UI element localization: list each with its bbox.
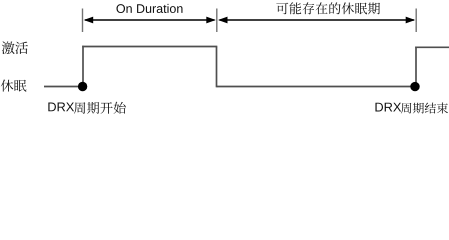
label "DRX周期结束" (DRX cycle end) <box>375 103 448 114</box>
node: DRX cycle start (black dot) <box>78 82 87 91</box>
label "可能存在的休眠期" (possible existing sleep period) <box>276 2 380 14</box>
arrow A1 : On Duration span (double-headed) <box>84 17 216 24</box>
wire: falling edge <box>216 47 218 88</box>
arrow A2 : possible sleep period span (double-headed) <box>218 17 415 24</box>
wire: rising edge 2 <box>415 47 417 88</box>
tick T2 : boundary between On Duration and sleep period <box>216 9 218 33</box>
wire: high-level segment after DRX cycle end <box>415 46 449 48</box>
label "On Duration" <box>116 4 182 13</box>
wire: low-level segment before DRX cycle start <box>44 86 83 88</box>
wire: low-level segment (possible sleep period) <box>217 86 416 88</box>
wire: rising edge 1 <box>82 46 84 88</box>
wire: high-level segment (On Duration) <box>82 46 217 48</box>
tick T3 : sleep period right boundary <box>415 9 417 33</box>
label "DRX周期开始" (DRX cycle start) <box>48 102 125 114</box>
tick T1 : On Duration left boundary <box>82 9 84 33</box>
node: DRX cycle end (black dot) <box>410 82 419 91</box>
label "休眠" (sleep level) <box>1 80 27 92</box>
label "激活" (active level) <box>2 42 28 55</box>
